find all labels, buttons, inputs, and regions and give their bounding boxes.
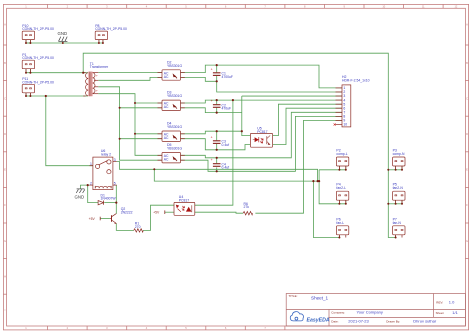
wire transformer bottom pin vertical x135 xyxy=(98,94,162,156)
svg-text:2021-07-23: 2021-07-23 xyxy=(348,318,369,323)
wire U4 right top to header pin9 xyxy=(195,100,233,205)
svg-text:YBS301G: YBS301G xyxy=(167,125,182,129)
wire P11 to transformer primary bottom xyxy=(26,93,88,96)
capacitor C4 xyxy=(211,158,229,170)
resistor R1 270 xyxy=(134,222,144,232)
svg-text:10: 10 xyxy=(343,123,347,127)
svg-text:4700uF: 4700uF xyxy=(222,75,234,79)
transistor Q2 2N2222 xyxy=(110,207,133,224)
wire long top net y=53.2 to right column N xyxy=(83,53,402,237)
connector P3 comp-N xyxy=(393,149,405,167)
svg-text:1N4007W: 1N4007W xyxy=(101,197,117,201)
svg-text:comp-L: comp-L xyxy=(336,152,347,156)
svg-text:fan-N: fan-N xyxy=(393,221,402,225)
svg-text:1/1: 1/1 xyxy=(452,310,458,315)
svg-text:Dhruv suthar: Dhruv suthar xyxy=(413,318,437,323)
wire P11 net down to relay pin 1 xyxy=(46,96,93,166)
bridge rectifier D5 xyxy=(158,143,185,163)
svg-text:AC: AC xyxy=(164,158,169,162)
svg-text:GND: GND xyxy=(75,194,85,199)
svg-text:D: D xyxy=(4,132,6,136)
svg-text:G: G xyxy=(466,239,468,243)
wire D4 out to C3 and U5 xyxy=(181,131,251,150)
power flag +5V (U4) xyxy=(153,210,165,214)
svg-text:GND: GND xyxy=(58,31,68,36)
bridge rectifier D4 xyxy=(158,122,185,142)
svg-text:+: + xyxy=(96,88,98,92)
svg-text:C: C xyxy=(4,96,6,100)
svg-text:CONN-TH_2P-P5.00: CONN-TH_2P-P5.00 xyxy=(95,27,127,31)
optocoupler U4 PC817 xyxy=(174,195,195,215)
wire D2 out to C1 and header pin1 xyxy=(181,65,343,88)
title block xyxy=(286,294,465,327)
wire U5 right pins up to header pins 5,6 xyxy=(273,104,342,144)
svg-text:B: B xyxy=(4,61,6,65)
svg-text:3: 3 xyxy=(114,158,116,162)
connector P1 xyxy=(22,53,54,69)
svg-text:27k: 27k xyxy=(244,205,250,209)
svg-text:fan2-L: fan2-L xyxy=(336,186,346,190)
svg-text:1.0: 1.0 xyxy=(449,300,455,305)
svg-text:Date:: Date: xyxy=(331,319,338,323)
resistor R6 27k xyxy=(243,202,253,215)
svg-text:G: G xyxy=(4,239,6,243)
ground GND top xyxy=(58,31,68,42)
wire U4 right bottom through R6 up to header pin10 xyxy=(195,120,342,213)
svg-text:B: B xyxy=(466,61,468,65)
connector P8 xyxy=(95,24,127,40)
svg-text:Company:: Company: xyxy=(331,311,345,315)
svg-text:+5V: +5V xyxy=(153,211,160,215)
svg-text:TITLE:: TITLE: xyxy=(289,294,298,298)
wire +5V to U4 xyxy=(165,211,174,213)
capacitor C2 xyxy=(211,99,232,111)
svg-text:HDR-F-2.54_1x10: HDR-F-2.54_1x10 xyxy=(342,79,370,83)
svg-text:fan-L: fan-L xyxy=(336,221,344,225)
svg-text:+5V: +5V xyxy=(89,217,96,221)
svg-text:PC817: PC817 xyxy=(179,198,189,202)
svg-text:E: E xyxy=(4,168,6,172)
svg-text:0.4uf: 0.4uf xyxy=(222,166,230,170)
svg-text:270: 270 xyxy=(135,225,141,229)
optocoupler U5 PC817 xyxy=(250,126,272,147)
svg-text:Sheet:: Sheet: xyxy=(436,311,445,315)
wire C1 bottom to header pin2 xyxy=(217,81,342,92)
svg-text:A: A xyxy=(466,23,468,27)
svg-text:REV:: REV: xyxy=(436,301,443,305)
connector P5 fan2-N xyxy=(393,183,405,201)
svg-text:CONN-TH_2P-P5.00: CONN-TH_2P-P5.00 xyxy=(22,27,54,31)
connector P11 xyxy=(22,77,54,93)
wire D5 out to C6 and header pins 7,8 xyxy=(181,112,343,171)
svg-text:AC: AC xyxy=(164,75,169,79)
svg-text:+: + xyxy=(211,67,213,71)
svg-text:E: E xyxy=(466,168,468,172)
svg-text:CONN-TH_2P-P5.00: CONN-TH_2P-P5.00 xyxy=(22,80,54,84)
svg-text:2N2222: 2N2222 xyxy=(121,210,133,214)
wire D1 loop xyxy=(88,185,117,203)
wire D3 out to C4 and header pin3 xyxy=(181,96,343,136)
svg-text:YBS301G: YBS301G xyxy=(167,64,182,68)
svg-text:relay 2: relay 2 xyxy=(101,153,111,157)
ground GND relay xyxy=(75,189,85,199)
svg-text:AC: AC xyxy=(164,105,169,109)
relay U6 xyxy=(90,149,117,189)
connector P6 fan-L xyxy=(336,217,348,235)
svg-text:+: + xyxy=(211,99,213,103)
wire transformer tap C vertical x118.9 xyxy=(98,87,162,160)
svg-text:PC817: PC817 xyxy=(257,130,267,134)
svg-text:+: + xyxy=(211,135,213,139)
svg-text:YBS301G: YBS301G xyxy=(167,94,182,98)
wire R1 to U4 input xyxy=(143,205,174,230)
svg-text:Sheet_1: Sheet_1 xyxy=(311,296,329,301)
svg-text:2: 2 xyxy=(90,181,92,185)
svg-text:Transformer: Transformer xyxy=(90,65,109,69)
svg-text:Your Company: Your Company xyxy=(357,310,383,315)
svg-text:C: C xyxy=(466,96,468,100)
power flag +5V (Q2 base) xyxy=(89,217,101,221)
connector P7 fan-N xyxy=(393,217,405,235)
diode D1 1N4007W xyxy=(98,193,116,205)
svg-text:YBS301G: YBS301G xyxy=(167,147,182,151)
capacitor C3 xyxy=(211,135,229,147)
svg-text:fan2-N: fan2-N xyxy=(393,186,404,190)
svg-text:0.4uf: 0.4uf xyxy=(222,143,230,147)
EasyEDA logo xyxy=(290,312,330,324)
capacitor C1 xyxy=(211,67,233,79)
svg-text:Drawn By:: Drawn By: xyxy=(386,319,400,323)
svg-text:1: 1 xyxy=(90,162,92,166)
wire Q2 collector / emitter / base xyxy=(100,203,134,231)
svg-text:+: + xyxy=(211,158,213,162)
connector pin stubs (maroon) xyxy=(26,40,402,238)
header H2 HDR-F-2.54_1x10 xyxy=(334,75,370,127)
svg-text:AC: AC xyxy=(164,136,169,140)
bridge rectifier D3 xyxy=(158,91,185,111)
svg-text:comp-N: comp-N xyxy=(393,152,405,156)
svg-text:+: + xyxy=(96,73,98,77)
svg-text:5: 5 xyxy=(114,181,116,185)
connector P10 xyxy=(22,24,54,40)
wire transformer secondary top to D2 xyxy=(98,72,162,74)
connector P2 comp-L xyxy=(336,149,348,167)
wire P1 to transformer primary top xyxy=(26,69,88,73)
wire relay contact out to L bus xyxy=(117,162,346,238)
svg-text:A: A xyxy=(4,23,6,27)
wire top row net (P10/GND/P8) xyxy=(26,40,103,43)
wire relay coil bottom left to GND xyxy=(81,185,90,189)
svg-text:D: D xyxy=(466,132,468,136)
bridge rectifier D2 xyxy=(158,60,185,80)
transformer T1 xyxy=(83,62,109,96)
wire transformer tap B to D2 pin2 xyxy=(98,77,162,80)
svg-text:CONN-TH_2P-P5.00: CONN-TH_2P-P5.00 xyxy=(22,56,54,60)
svg-text:470uF: 470uF xyxy=(222,107,232,111)
connector P4 fan2-L xyxy=(336,183,348,201)
svg-text:H: H xyxy=(4,274,6,278)
svg-text:EasyEDA: EasyEDA xyxy=(307,317,330,323)
